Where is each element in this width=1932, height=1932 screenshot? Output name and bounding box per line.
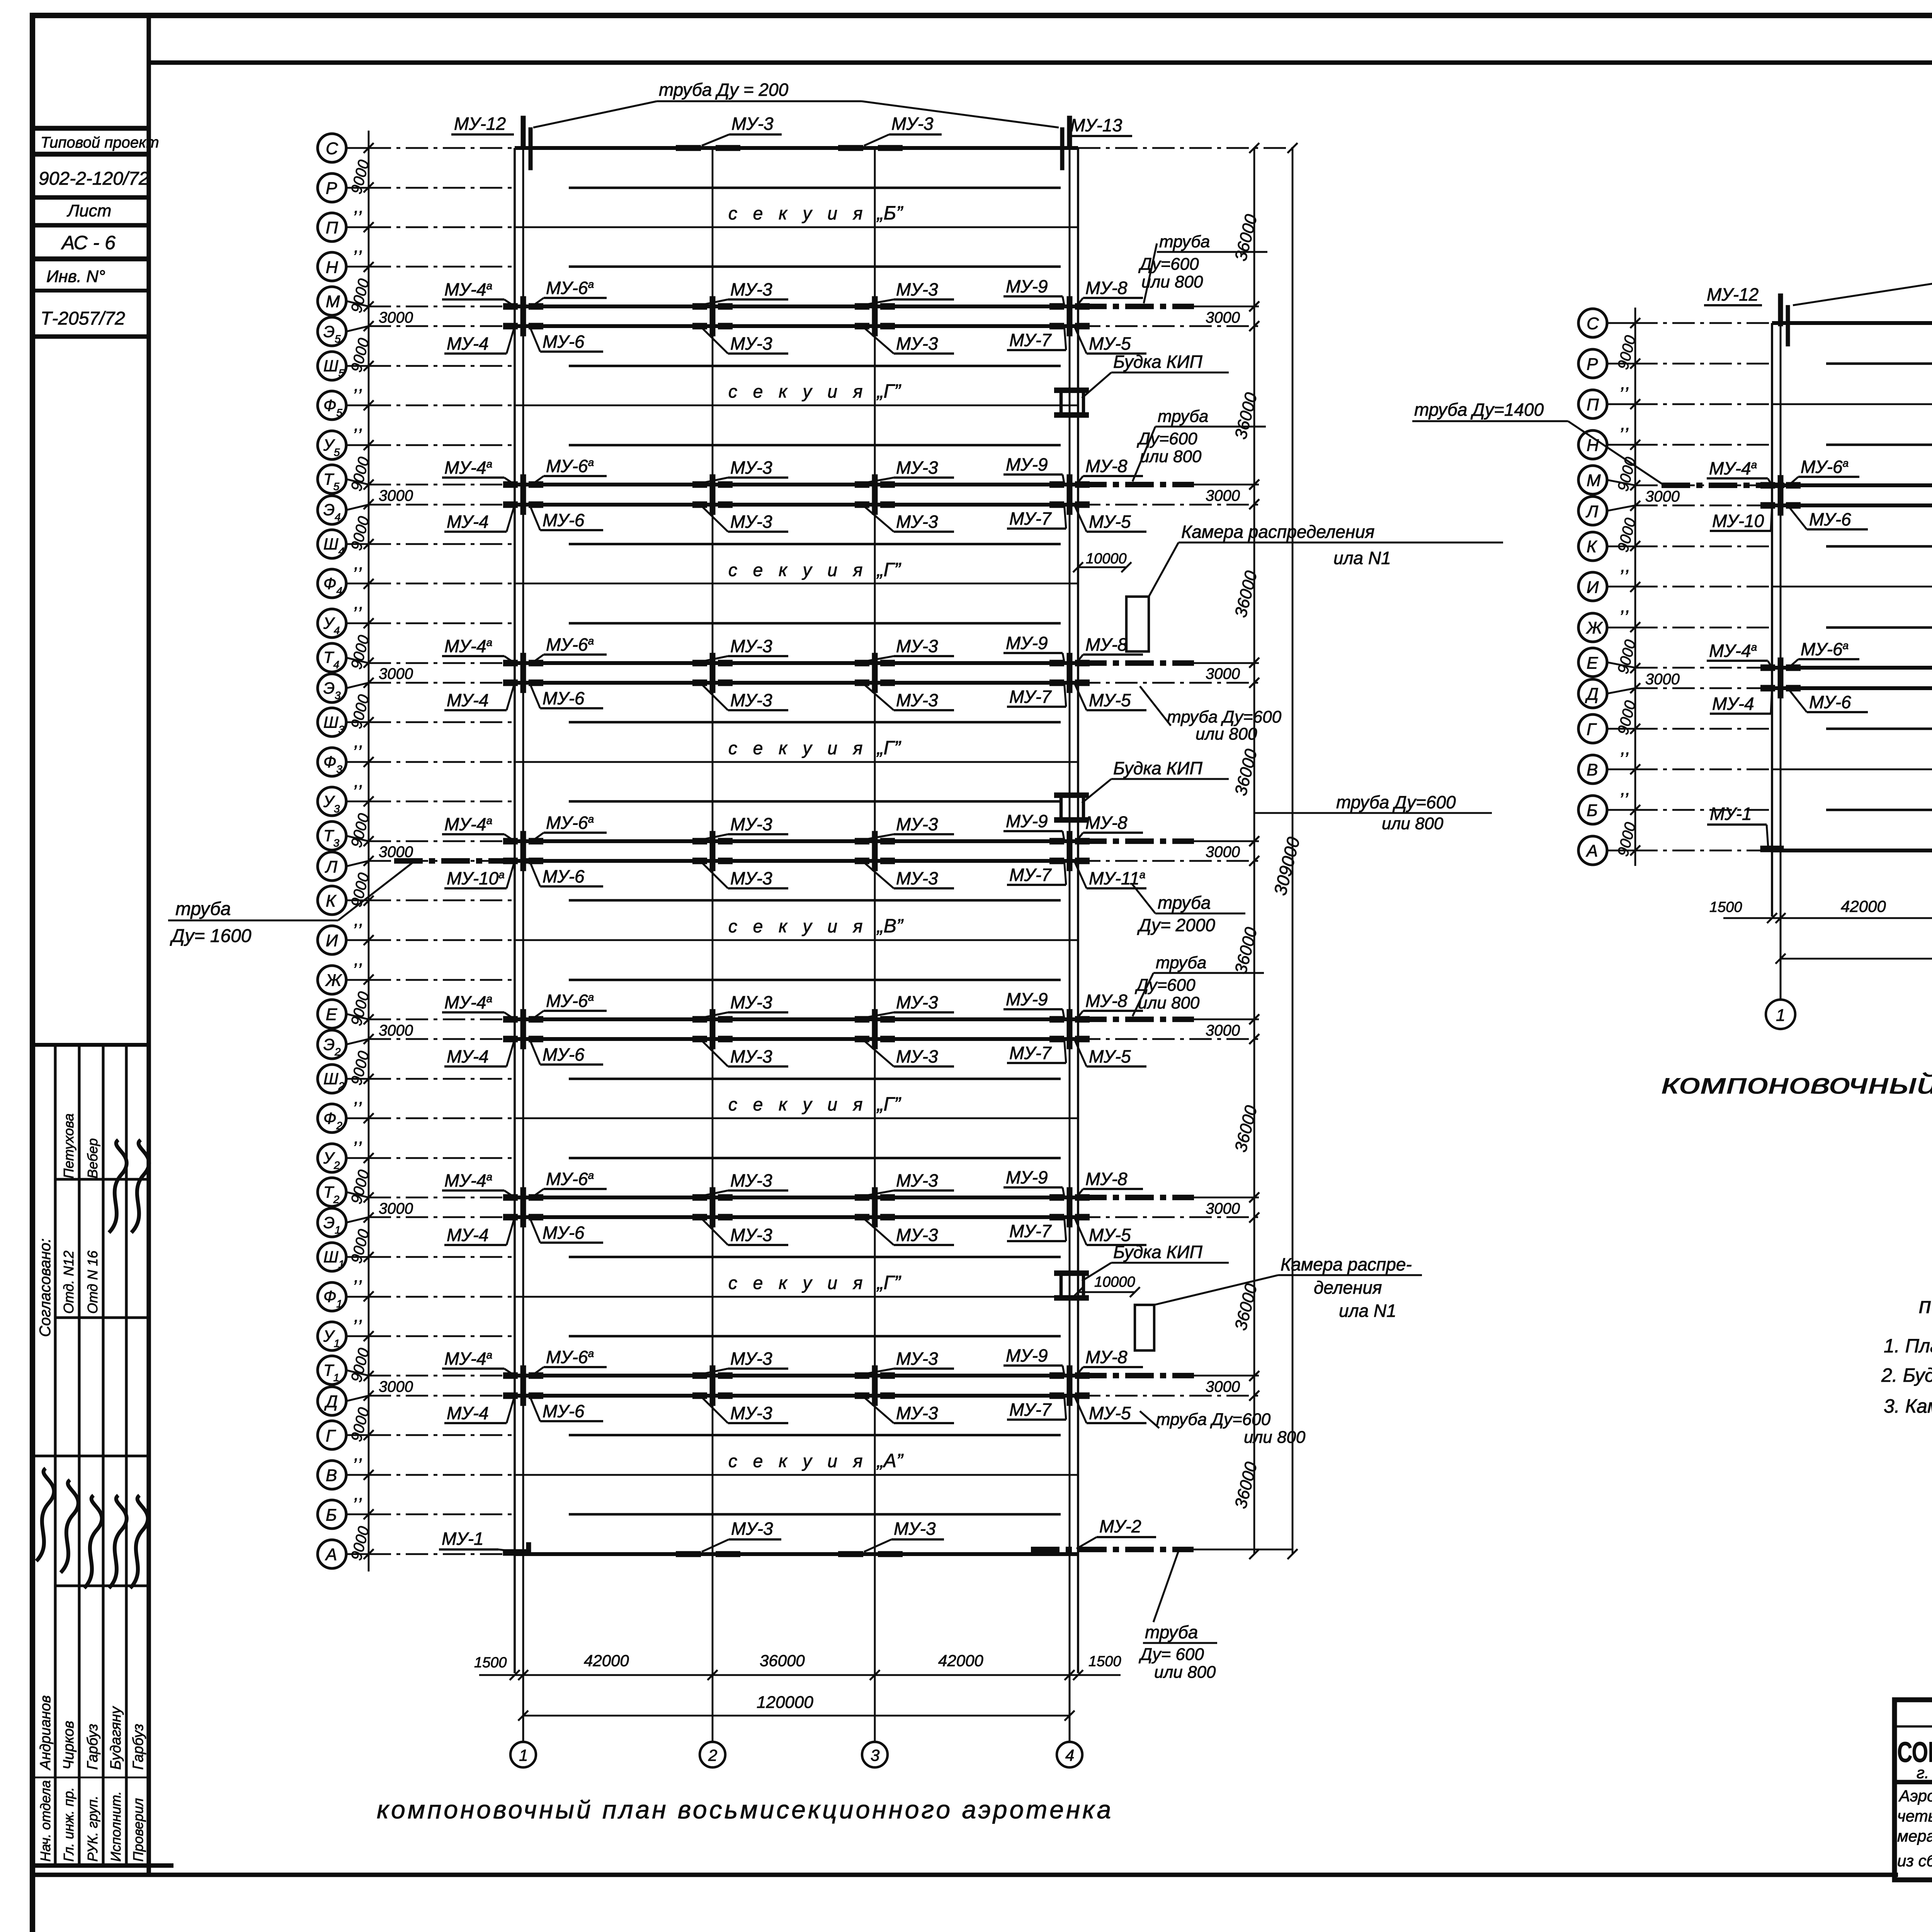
signature scribbles	[36, 1140, 149, 1588]
svg-text:902-2-120/72: 902-2-120/72	[39, 168, 149, 189]
marker label МУ-4а	[1707, 641, 1772, 668]
marker label МУ-7	[1007, 681, 1066, 707]
svg-text:„Г”: „Г”	[876, 1093, 901, 1115]
svg-text:четырехкоридорные с раз-: четырехкоридорные с раз-	[1897, 1807, 1932, 1825]
svg-text:Типовой проект: Типовой проект	[41, 134, 159, 151]
svg-text:2. Будку КИП см.л. АС-73 .: 2. Будку КИП см.л. АС-73 .	[1881, 1364, 1932, 1386]
marker label МУ-9	[1003, 454, 1064, 483]
svg-text:МУ-6а: МУ-6а	[546, 278, 594, 298]
svg-text:МУ-3: МУ-3	[730, 1046, 772, 1066]
pipe dash-dot (right of col 4)	[1078, 304, 1194, 309]
right plan row circle Д	[1578, 679, 1640, 708]
svg-text:МУ-6: МУ-6	[543, 688, 585, 708]
pipe dash-dot (right of col 4)	[1078, 660, 1194, 666]
marker label МУ-3	[702, 862, 788, 888]
svg-text:МУ-9: МУ-9	[1006, 276, 1048, 296]
svg-text:МУ-6: МУ-6	[1809, 509, 1851, 529]
section wall top row Э1	[515, 1215, 1078, 1219]
svg-text:,,: ,,	[354, 197, 364, 217]
right plan section wall row С	[1772, 321, 1932, 325]
svg-text:или 800: или 800	[1382, 814, 1444, 833]
title: компоновочный план восьмисекционного аэротенка	[377, 1795, 1113, 1824]
svg-text:„Г”: „Г”	[876, 1272, 901, 1293]
svg-text:Отд. N12: Отд. N12	[61, 1250, 77, 1314]
junction tick marks	[503, 653, 1090, 673]
marker label МУ-7	[1007, 325, 1066, 350]
marker label МУ-8	[1075, 813, 1143, 843]
svg-text:МУ-9: МУ-9	[1006, 633, 1048, 653]
marker label МУ-7	[1007, 1394, 1066, 1420]
svg-text:МУ-6: МУ-6	[543, 1044, 585, 1065]
corridor wall row П	[515, 226, 1078, 228]
svg-text:В: В	[1587, 760, 1598, 779]
junction tick marks	[503, 495, 1090, 515]
svg-text:или 800: или 800	[1154, 1663, 1216, 1682]
title: компоновочный план трехсекционного аэротенка	[1662, 1068, 1932, 1100]
marker label МУ-11а	[1075, 862, 1146, 888]
marker МУ-3 (bottom)	[864, 1519, 944, 1552]
svg-text:,,: ,,	[354, 415, 364, 435]
corridor wall row Ф4	[515, 583, 1078, 585]
svg-text:МУ-7: МУ-7	[1009, 687, 1052, 707]
marker label МУ-6а	[529, 991, 607, 1022]
row axis circle С	[318, 134, 374, 162]
right plan 3000 labels (left)	[1645, 488, 1680, 688]
svg-text:3000: 3000	[1206, 665, 1240, 682]
svg-text:10000: 10000	[1094, 1274, 1135, 1290]
top extension line row С to dims	[1078, 147, 1293, 149]
corridor wall row У4	[569, 622, 1061, 624]
svg-text:С: С	[326, 139, 338, 158]
section label секция Г	[728, 1272, 901, 1293]
svg-text:Согласовано:: Согласовано:	[37, 1238, 54, 1337]
svg-text:МУ-3: МУ-3	[896, 636, 938, 656]
junction tick marks	[1760, 495, 1932, 515]
marker label МУ-3	[702, 1219, 788, 1245]
svg-text:МУ-7: МУ-7	[1009, 1043, 1052, 1063]
svg-text:МУ-3: МУ-3	[731, 1519, 773, 1539]
extension lines to right dimension line	[1078, 663, 1259, 683]
svg-text:МУ-3: МУ-3	[896, 868, 938, 888]
svg-text:Камера распределения: Камера распределения	[1181, 522, 1374, 542]
marker label МУ-3	[702, 506, 788, 532]
svg-text:МУ-6: МУ-6	[543, 1223, 585, 1243]
svg-text:МУ-7: МУ-7	[1009, 1221, 1052, 1241]
svg-text:Инв. N°: Инв. N°	[46, 267, 105, 286]
svg-text:Ду=600: Ду=600	[1138, 255, 1199, 274]
svg-text:Б: Б	[326, 1505, 337, 1524]
svg-text:У1: У1	[323, 1327, 340, 1349]
corridor wall row Р	[569, 187, 1061, 189]
right plan corridor wall row Ж	[1826, 626, 1932, 629]
svg-text:,,: ,,	[354, 375, 364, 395]
sidebar stamp boxes	[32, 128, 149, 337]
МУ-3 flag symbol	[862, 1537, 876, 1552]
svg-text:МУ-3: МУ-3	[730, 814, 772, 834]
svg-text:Т-2057/72: Т-2057/72	[41, 308, 125, 329]
sidebar text: Т-2057/72	[41, 308, 125, 329]
section wall top row С	[515, 146, 1078, 150]
svg-text:3000: 3000	[379, 1022, 413, 1039]
svg-text:МУ-3: МУ-3	[730, 1170, 772, 1190]
row axis circle Э1	[318, 1208, 374, 1237]
right dimension line (36000 per section)	[1249, 143, 1259, 1559]
marker label МУ-8	[1075, 1169, 1143, 1199]
marker label МУ-5	[1075, 1219, 1146, 1245]
section wall bottom row Т5	[515, 483, 1078, 486]
right plan row circle С	[1578, 309, 1640, 337]
corridor wall row К	[569, 899, 1061, 901]
svg-text:МУ-9: МУ-9	[1006, 811, 1048, 831]
svg-text:Э2: Э2	[323, 1035, 341, 1058]
marker label МУ-3	[702, 814, 788, 840]
svg-text:МУ-12: МУ-12	[454, 114, 506, 134]
svg-text:МУ-3: МУ-3	[896, 690, 938, 710]
svg-text:„В”: „В”	[876, 915, 904, 937]
marker label МУ-9	[1003, 989, 1064, 1018]
marker label МУ-8	[1075, 278, 1143, 308]
row axis circle Р	[318, 173, 374, 202]
svg-text:Гарбуз: Гарбуз	[130, 1724, 146, 1770]
corridor wall row Ф2	[515, 1117, 1078, 1119]
36000 labels (rotated)	[1231, 212, 1261, 1510]
svg-text:Андрианов: Андрианов	[37, 1695, 54, 1770]
marker label МУ-6	[1786, 686, 1868, 712]
svg-text:МУ-13: МУ-13	[1070, 115, 1122, 135]
row axis circle Ш4	[318, 530, 374, 558]
svg-text:труба Ду=600: труба Ду=600	[1156, 1410, 1271, 1429]
right plan pipe труба Ду=1400	[1412, 400, 1787, 486]
svg-text:309000: 309000	[1270, 835, 1304, 897]
svg-text:МУ-9: МУ-9	[1006, 1167, 1048, 1187]
МУ-3 flag symbol	[862, 131, 876, 146]
svg-text:труба: труба	[175, 899, 231, 919]
svg-text:МУ-4: МУ-4	[447, 512, 489, 532]
marker label МУ-9	[1003, 1167, 1064, 1196]
marker label МУ-4а	[442, 992, 515, 1019]
column number circle 2	[700, 1742, 725, 1767]
marker МУ-13 (top of column 4)	[1060, 115, 1132, 170]
svg-text:МУ-4: МУ-4	[447, 1403, 489, 1423]
marker label МУ-3	[864, 636, 954, 662]
right plan row circle П	[1578, 390, 1640, 418]
svg-text:МУ-4: МУ-4	[1712, 694, 1754, 714]
column 1 wall line	[514, 148, 516, 1673]
right plan row circle В	[1578, 755, 1640, 784]
row axis circle А	[318, 1540, 374, 1568]
svg-text:С: С	[1587, 314, 1599, 333]
marker label МУ-3	[864, 1219, 954, 1245]
row axis circle У1	[318, 1322, 374, 1350]
row axis circle Ф2	[318, 1104, 374, 1133]
svg-text:МУ-7: МУ-7	[1009, 1400, 1052, 1420]
svg-text:Вебер: Вебер	[85, 1138, 100, 1179]
right plan corridor wall row Р	[1826, 362, 1932, 365]
marker label МУ-4	[444, 1217, 515, 1245]
svg-text:Т5: Т5	[323, 470, 340, 492]
svg-text:Ф5: Ф5	[323, 396, 342, 418]
Будка КИП box 1	[1054, 352, 1229, 415]
sidebar text: Лист	[66, 201, 111, 220]
svg-text:МУ-8: МУ-8	[1085, 456, 1128, 476]
svg-text:3000: 3000	[1206, 487, 1240, 504]
extension lines to right dimension line	[1078, 306, 1259, 326]
dimension ticks and 3000 label (right)	[1206, 1192, 1259, 1223]
svg-text:МУ-3: МУ-3	[730, 636, 772, 656]
right plan corridor wall row П	[1772, 403, 1932, 405]
svg-text:МУ-4а: МУ-4а	[444, 636, 492, 656]
section wall bottom row Т3	[515, 839, 1078, 843]
svg-text:Е: Е	[1587, 654, 1598, 673]
svg-text:,,: ,,	[354, 553, 364, 573]
right plan: left dimension line	[1634, 308, 1636, 866]
row axis circle Э5	[318, 317, 374, 346]
svg-text:МУ-4а: МУ-4а	[444, 1170, 492, 1190]
corridor wall row У5	[569, 444, 1061, 446]
svg-text:МУ-6: МУ-6	[543, 866, 585, 886]
svg-text:МУ-6: МУ-6	[543, 510, 585, 530]
marker label МУ-4	[444, 326, 515, 354]
section wall top row Э5	[515, 324, 1078, 328]
svg-text:МУ-3: МУ-3	[730, 512, 772, 532]
row axis circle Т3	[318, 821, 374, 850]
3000 joint dimension labels (left)	[379, 309, 413, 1395]
marker label МУ-3	[702, 1397, 788, 1423]
extension lines to right dimension line	[1078, 841, 1259, 861]
marker label МУ-6а	[1786, 457, 1859, 488]
МУ-3 flag symbol	[699, 1537, 714, 1552]
svg-text:г. Москва: г. Москва	[1917, 1764, 1932, 1782]
svg-text:М: М	[326, 292, 340, 311]
svg-text:3000: 3000	[379, 309, 413, 326]
svg-text:Д: Д	[1585, 685, 1599, 704]
marker label МУ-3	[702, 279, 788, 305]
svg-text:Ду= 1600: Ду= 1600	[170, 926, 252, 946]
marker label МУ-5	[1075, 684, 1146, 710]
svg-text:3000: 3000	[379, 1200, 413, 1217]
marker label МУ-4а	[442, 814, 515, 841]
corridor wall row У2	[569, 1157, 1061, 1159]
marker label МУ-7	[1007, 859, 1066, 885]
svg-text:Д: Д	[324, 1392, 338, 1411]
row axis circle Ш3	[318, 708, 374, 736]
inner frame bottom line	[32, 1872, 1898, 1877]
svg-text:МУ-5: МУ-5	[1089, 1403, 1131, 1423]
svg-text:,,: ,,	[1621, 596, 1631, 616]
column 3 axis line	[874, 148, 876, 1742]
right plan section wall row М	[1772, 483, 1932, 487]
svg-text:с е к у и я: с е к у и я	[728, 381, 868, 401]
corridor wall row Ш3	[569, 721, 1061, 723]
row axis circle Ф1	[318, 1282, 374, 1311]
svg-text:,,: ,,	[1621, 414, 1631, 434]
section label секция Г	[728, 1093, 901, 1115]
svg-text:36000: 36000	[1231, 569, 1261, 619]
svg-text:,,: ,,	[354, 1306, 364, 1326]
title block (stamp)	[1895, 1700, 1932, 1880]
svg-text:с е к у и я: с е к у и я	[728, 560, 868, 580]
svg-text:МУ-4а: МУ-4а	[444, 1349, 492, 1369]
svg-text:Б: Б	[1587, 801, 1598, 820]
svg-text:3000: 3000	[1206, 309, 1240, 326]
svg-text:МУ-6а: МУ-6а	[546, 634, 594, 655]
right plan corridor wall row Г	[1826, 728, 1932, 730]
junction tick marks	[503, 1029, 1090, 1049]
junction tick marks	[503, 474, 1090, 495]
svg-text:МУ-3: МУ-3	[896, 1046, 938, 1066]
sidebar text: Типовой проект	[41, 134, 159, 151]
marker МУ-2 (bottom of column 4)	[1077, 1516, 1156, 1549]
inner frame left (sidebar) line	[146, 15, 151, 1876]
svg-text:Петухова: Петухова	[61, 1113, 77, 1179]
row axis circle Н	[318, 252, 374, 281]
marker label МУ-9	[1003, 276, 1064, 305]
svg-text:МУ-3: МУ-3	[730, 333, 772, 354]
svg-text:МУ-6а: МУ-6а	[546, 456, 594, 476]
marker МУ-3 (top)	[702, 114, 782, 146]
svg-text:МУ-3: МУ-3	[896, 457, 938, 478]
svg-text:Р: Р	[1587, 355, 1598, 374]
marker label МУ-4	[1710, 688, 1772, 714]
svg-text:МУ-3: МУ-3	[730, 457, 772, 478]
row axis circle У3	[318, 787, 374, 816]
pipe label труба Ду=600 или 800 (below Т4)	[1140, 686, 1282, 743]
svg-text:,,: ,,	[354, 910, 364, 930]
svg-text:Ш3: Ш3	[323, 713, 345, 735]
svg-text:ила N1: ила N1	[1333, 548, 1391, 568]
svg-text:3000: 3000	[1645, 671, 1680, 688]
row axis circle Г	[318, 1421, 374, 1449]
svg-text:3000: 3000	[1206, 1200, 1240, 1217]
svg-text:П: П	[326, 218, 338, 237]
section wall top row Э2	[515, 1037, 1078, 1041]
row axis circle Ш1	[318, 1243, 374, 1271]
svg-text:или 800: или 800	[1196, 724, 1257, 743]
svg-text:Л: Л	[325, 857, 338, 876]
svg-text:Ду=600: Ду=600	[1136, 429, 1197, 448]
svg-text:труба: труба	[1145, 1622, 1198, 1642]
svg-text:Проверил: Проверил	[130, 1798, 146, 1862]
row axis circle У2	[318, 1144, 374, 1172]
row axis circle У5	[318, 431, 374, 459]
right plan section wall row Е	[1772, 666, 1932, 670]
marker МУ-3 (top)	[864, 114, 942, 146]
svg-text:МУ-9: МУ-9	[1006, 454, 1048, 474]
svg-text:Отд N 16: Отд N 16	[85, 1250, 100, 1314]
svg-text:1500: 1500	[1088, 1653, 1121, 1670]
extension lines to right dimension line	[1078, 485, 1259, 505]
section wall bottom row Е	[515, 1017, 1078, 1021]
svg-text:МУ-3: МУ-3	[731, 114, 774, 134]
svg-text:МУ-3: МУ-3	[896, 1349, 938, 1369]
marker label МУ-4	[444, 505, 515, 532]
svg-text:компоновочный план восьми: компоновочный план восьмисекционного аэр…	[377, 1795, 1113, 1824]
column number circle 1	[510, 1742, 536, 1767]
row axis circle Т5	[318, 465, 374, 493]
marker label МУ-4а	[442, 279, 515, 306]
pipe label труба Ду=2000 (joint Т3/Л)	[1132, 884, 1245, 935]
svg-text:МУ-6а: МУ-6а	[546, 1169, 594, 1189]
svg-text:Ду= 2000: Ду= 2000	[1137, 915, 1215, 935]
svg-text:Э5: Э5	[323, 322, 341, 345]
marker label МУ-6	[1786, 503, 1868, 529]
marker label МУ-9	[1003, 1345, 1064, 1374]
svg-text:мерами коридора 9х5,2х120: мерами коридора 9х5,2х120	[1897, 1827, 1932, 1845]
right plan row circle И	[1578, 572, 1640, 601]
svg-text:Ду= 600: Ду= 600	[1138, 1645, 1204, 1664]
svg-text:3. Камеру распределения ила: 3. Камеру распределения ила N1 см. л. АС…	[1884, 1395, 1932, 1417]
svg-text:,,: ,,	[354, 1128, 364, 1148]
row axis circle Л	[318, 852, 374, 881]
marker label МУ-6а	[529, 1169, 607, 1200]
junction tick marks	[503, 1366, 1090, 1386]
svg-text:МУ-4а: МУ-4а	[1709, 458, 1757, 478]
svg-text:3000: 3000	[379, 1378, 413, 1395]
svg-text:с е к у и я: с е к у и я	[728, 203, 868, 223]
marker МУ-12 (top of column 1)	[451, 114, 532, 170]
svg-text:МУ-8: МУ-8	[1085, 991, 1128, 1011]
svg-text:,,: ,,	[354, 1444, 364, 1464]
right plan row circle Е	[1578, 648, 1640, 677]
svg-text:МУ-3: МУ-3	[896, 512, 938, 532]
svg-text:МУ-11а: МУ-11а	[1089, 868, 1145, 888]
extension lines to right dimension line	[1078, 1197, 1259, 1217]
svg-text:Т4: Т4	[323, 648, 339, 671]
junction tick marks	[503, 851, 1090, 871]
svg-text:МУ-4а: МУ-4а	[444, 457, 492, 478]
marker label МУ-10	[1710, 505, 1772, 531]
9000 dimension labels (rotated) and ditto marks	[348, 158, 372, 1562]
svg-text:Будка КИП: Будка КИП	[1113, 758, 1202, 778]
svg-text:МУ-1: МУ-1	[442, 1529, 484, 1549]
row axis circle И	[318, 926, 374, 954]
marker label МУ-4а	[1707, 458, 1772, 485]
marker label МУ-4	[444, 1396, 515, 1423]
svg-text:МУ-5: МУ-5	[1089, 512, 1131, 532]
marker label МУ-3	[864, 457, 954, 483]
svg-text:с е к у и я: с е к у и я	[728, 738, 868, 758]
inner frame top line	[149, 60, 1932, 65]
marker label МУ-3	[864, 279, 954, 305]
marker label МУ-3	[864, 506, 954, 532]
svg-text:Ш2: Ш2	[323, 1070, 345, 1092]
svg-text:МУ-8: МУ-8	[1085, 813, 1128, 833]
right plan corridor wall row Б	[1826, 809, 1932, 811]
marker label МУ-8	[1075, 456, 1143, 486]
corridor wall row В	[515, 1474, 1078, 1476]
marker label МУ-6а	[529, 456, 607, 487]
marker label МУ-3	[702, 328, 788, 354]
svg-text:Ж: Ж	[325, 971, 342, 990]
svg-text:В: В	[326, 1466, 337, 1485]
row axis circle К	[318, 886, 374, 915]
svg-text:труба: труба	[1156, 953, 1206, 972]
marker label МУ-4а	[442, 1170, 515, 1197]
svg-text:Л: Л	[1585, 502, 1599, 521]
svg-text:36000: 36000	[1231, 1460, 1261, 1510]
svg-text:Ф1: Ф1	[323, 1287, 342, 1310]
section wall top row Э3	[515, 681, 1078, 685]
svg-text:МУ-4: МУ-4	[447, 1046, 489, 1066]
right plan row circle Р	[1578, 349, 1640, 378]
svg-text:Гл. инж. пр.: Гл. инж. пр.	[61, 1787, 77, 1862]
svg-text:МУ-8: МУ-8	[1085, 278, 1128, 298]
svg-text:3000: 3000	[379, 487, 413, 504]
right plan column circle 1	[1766, 1000, 1795, 1029]
svg-text:МУ-8: МУ-8	[1085, 1347, 1128, 1367]
signature table rotated texts (names block)	[37, 1695, 146, 1862]
svg-text:Э1: Э1	[323, 1214, 341, 1236]
